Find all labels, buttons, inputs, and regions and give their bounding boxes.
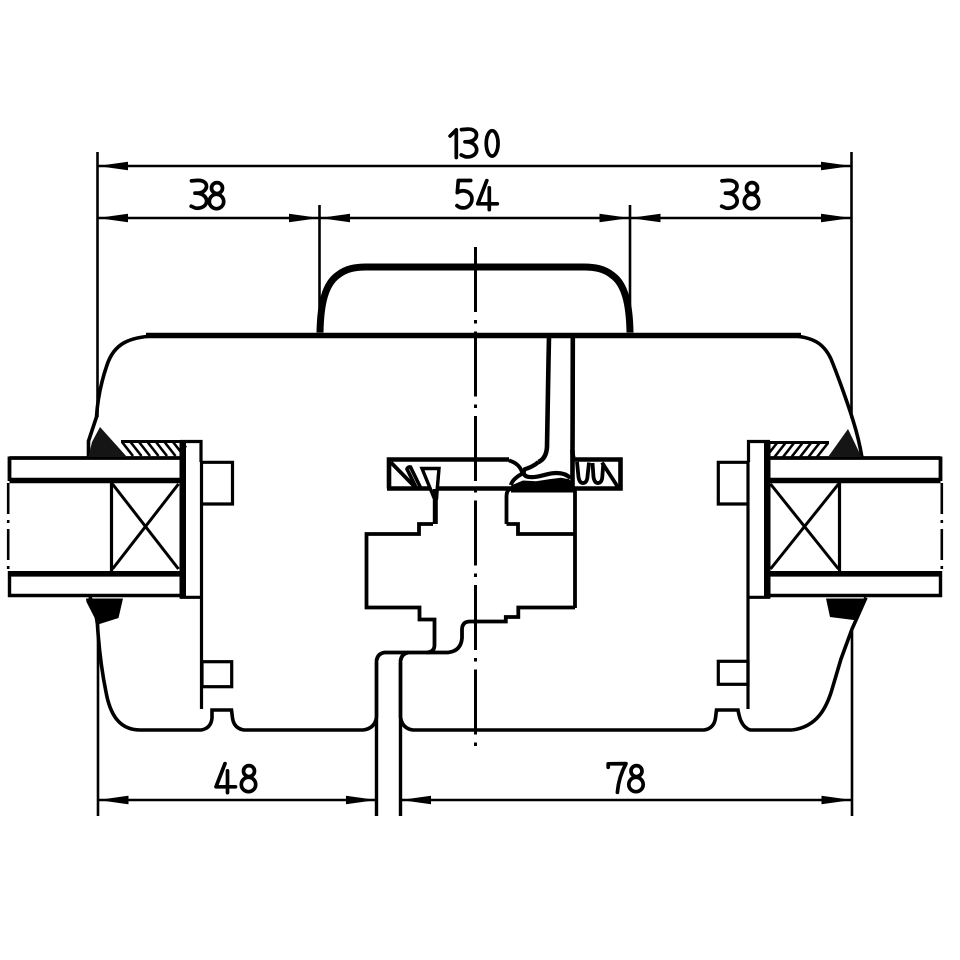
dimension 130 arrows xyxy=(98,162,852,171)
drain channel wall left (extension for 48) xyxy=(375,660,378,816)
left panel thick line upper xyxy=(10,478,181,483)
pocket right edge extension xyxy=(437,469,439,500)
bottom outline right segment with bump xyxy=(401,662,793,730)
right panel break chain line xyxy=(940,483,943,571)
bar right hatch hairpin 1 xyxy=(577,462,589,483)
left upper gasket (stippled) xyxy=(89,427,128,457)
left clamp vertical line to bottom xyxy=(200,462,203,709)
bar pocket triangle xyxy=(422,469,439,498)
dimension 48/78 arrows xyxy=(98,796,852,805)
left small tab xyxy=(202,662,232,687)
centerline (vertical dash-dot axis) xyxy=(474,247,477,750)
right upper gasket (stippled) xyxy=(828,429,861,457)
aluminium bar right section xyxy=(571,450,621,490)
aluminium bar left section xyxy=(387,460,512,489)
dimension 130 line xyxy=(98,165,852,168)
extension lines top xyxy=(98,152,852,418)
dimension row 38/54/38 line xyxy=(98,217,852,220)
right panel thick line lower xyxy=(770,571,941,577)
main profile top line xyxy=(146,333,801,339)
right clamp vertical line to bottom xyxy=(746,462,749,709)
right panel top plate xyxy=(770,457,941,482)
dimension 48 text xyxy=(216,764,236,793)
central block right wall xyxy=(573,490,577,608)
gasket wave lower xyxy=(511,474,523,486)
left timber box diagonal 1 xyxy=(113,484,179,569)
dimension 38 right text xyxy=(722,180,737,208)
right upper hatch strip strokes xyxy=(766,443,828,457)
left panel thick line lower xyxy=(10,571,181,577)
left lower gasket (black) xyxy=(86,599,123,625)
left timber box diagonal 2 xyxy=(113,484,179,569)
stem right edge xyxy=(573,337,574,458)
right clamp wall (thick) xyxy=(764,441,771,599)
dimension 130 text xyxy=(450,130,456,158)
main profile right edge xyxy=(788,336,862,458)
dimension 38 left text xyxy=(191,180,206,208)
central block right inner step xyxy=(507,524,576,534)
left upper hatch strip strokes xyxy=(122,442,186,456)
main profile left edge xyxy=(89,336,161,458)
stem left edge xyxy=(539,337,550,462)
central block bottom S-path xyxy=(426,608,575,653)
dimension 78 text xyxy=(608,764,626,793)
main profile left lower edge xyxy=(90,597,140,730)
stem foot toe and sole xyxy=(524,462,571,478)
right timber box diagonal 2 xyxy=(771,484,839,569)
bar left hatch diagonal xyxy=(391,463,416,488)
stem foot flange (dark) xyxy=(511,478,574,493)
bottom outline left segment with bump xyxy=(140,662,377,730)
left clamp plate outline xyxy=(180,442,201,598)
screw channel leg xyxy=(433,489,438,524)
drain wall right top fillet xyxy=(401,653,409,662)
dimension 54 text xyxy=(457,181,472,208)
right panel thick line upper xyxy=(770,478,941,483)
right upper hatch strip top line xyxy=(766,441,829,444)
main profile right lower edge xyxy=(792,598,866,731)
right clamp plate outline xyxy=(749,442,771,598)
right panel bottom plate xyxy=(770,571,941,597)
extension lines bottom xyxy=(98,622,852,816)
left panel break chain line xyxy=(7,483,10,571)
left panel bottom plate xyxy=(10,571,180,597)
glazing cap (dome) xyxy=(320,267,630,333)
central block outline left xyxy=(367,524,435,661)
right clamp tab xyxy=(718,462,748,504)
bar left hatch hairpin xyxy=(407,467,421,488)
drain channel wall right (extension for 78) xyxy=(399,660,402,816)
gasket wave upper xyxy=(509,461,523,474)
left timber box xyxy=(110,480,113,575)
left panel top plate xyxy=(10,457,180,482)
central block neck right xyxy=(507,488,514,524)
bar right hatch diagonal xyxy=(602,463,619,489)
right timber box diagonal 1 xyxy=(771,484,839,569)
dimension 48 line xyxy=(98,799,852,802)
left clamp tab xyxy=(201,462,233,504)
right timber box xyxy=(838,480,841,575)
left clamp wall (thick) xyxy=(180,441,187,599)
right lower gasket (black) xyxy=(826,599,867,621)
right small tab xyxy=(718,661,748,684)
bar right hatch hairpin 2 xyxy=(593,463,604,483)
left upper hatch strip top line xyxy=(121,440,186,443)
dimension 38/54/38 arrows xyxy=(98,214,852,223)
